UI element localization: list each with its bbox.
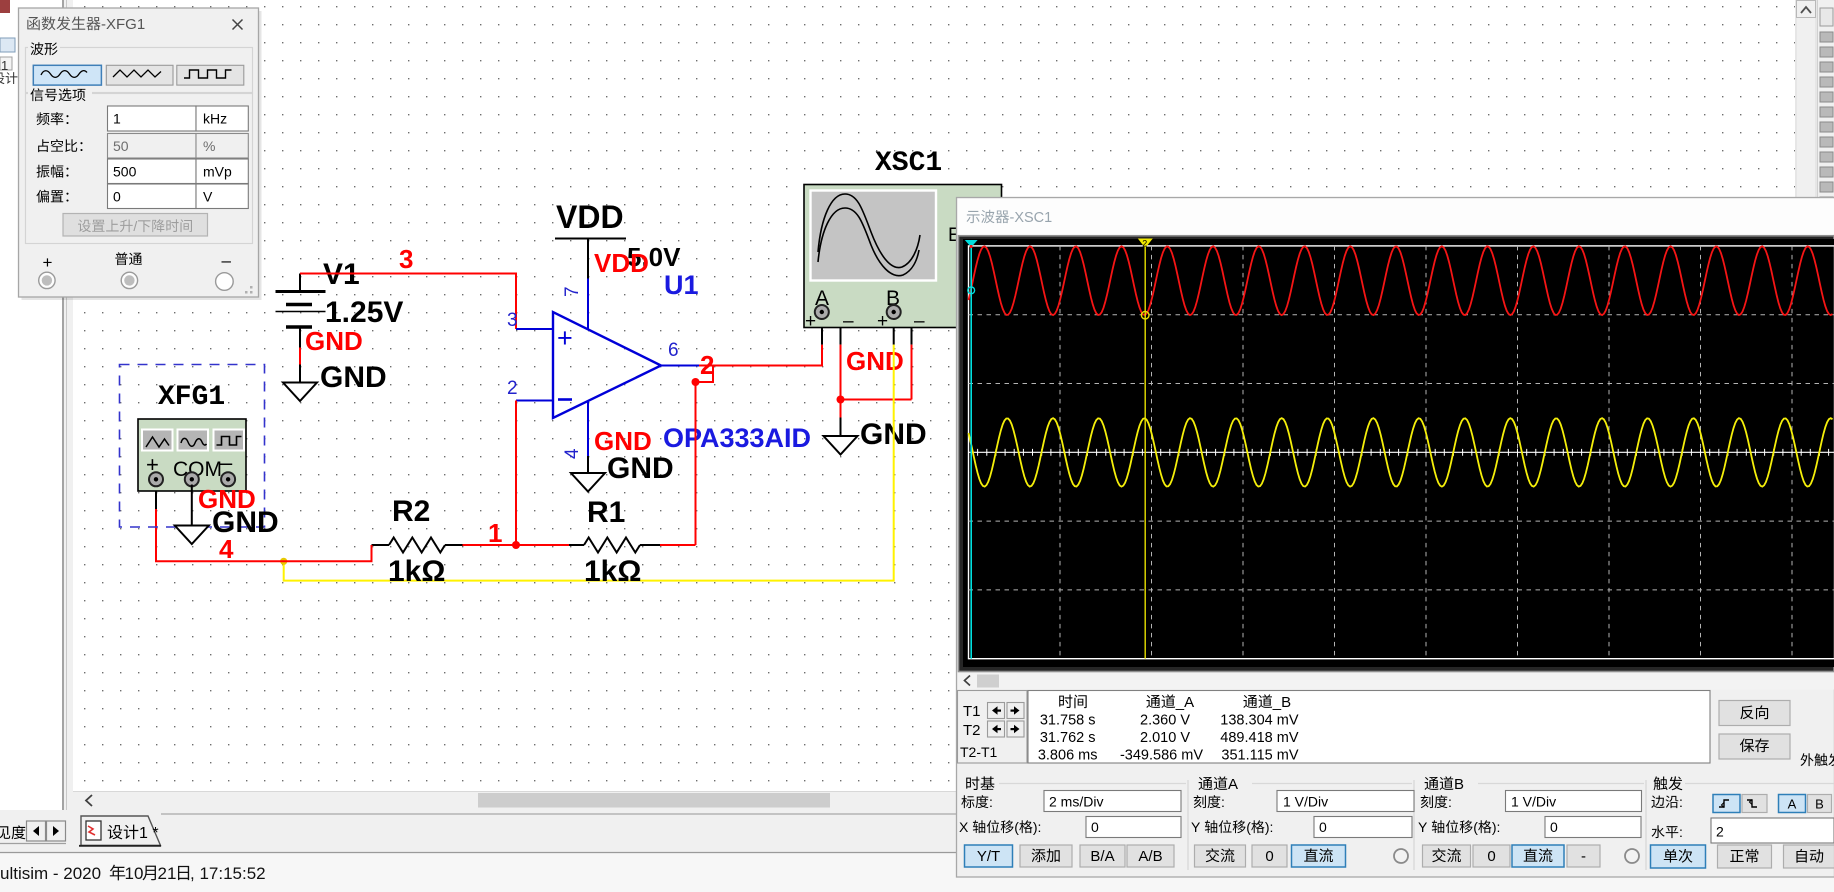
svg-text:1.25V: 1.25V xyxy=(325,296,403,329)
svg-text:-XSC1: -XSC1 xyxy=(1010,210,1053,226)
svg-text:VDD: VDD xyxy=(556,199,624,235)
resistor R1 xyxy=(569,544,584,546)
wire node1 up to op-amp pin2 xyxy=(515,401,517,546)
svg-text:4: 4 xyxy=(562,448,583,459)
svg-text:3: 3 xyxy=(507,310,518,331)
output polarity row xyxy=(115,252,142,265)
scope window title bar xyxy=(958,199,1834,235)
op-amp pin 4 (GND) lead xyxy=(587,401,589,456)
ground symbol below scope xyxy=(840,418,842,437)
svg-text::: : xyxy=(1448,794,1452,810)
svg-text::: : xyxy=(1679,824,1683,840)
oscilloscope window XSC1 xyxy=(957,198,1834,878)
wave button square xyxy=(177,65,244,85)
bottom horizontal scrollbar xyxy=(73,792,1795,810)
status bar xyxy=(0,852,1834,854)
svg-text:OPA333AID: OPA333AID xyxy=(663,423,811,453)
XSC1 icon sine curve 2 xyxy=(818,208,919,276)
svg-text:(: ( xyxy=(1473,819,1478,835)
svg-text:10: 10 xyxy=(125,864,144,883)
wire V1 to ground (red segment) xyxy=(299,348,301,365)
svg-text:+: + xyxy=(877,311,888,332)
field offset xyxy=(36,190,68,203)
svg-text:351.115 mV: 351.115 mV xyxy=(1221,748,1298,764)
oscilloscope XSC1 icon xyxy=(804,185,1002,328)
T1 arrows xyxy=(988,703,1005,719)
svg-text:U1: U1 xyxy=(664,270,699,300)
svg-text:489.418 mV: 489.418 mV xyxy=(1220,730,1299,746)
XFG1 terminal + xyxy=(149,472,163,486)
wire XFG COM to ground xyxy=(191,485,193,526)
scope plot frame xyxy=(959,236,1834,672)
scope time axis with ticks xyxy=(969,451,1834,453)
button set rise/fall time (disabled) xyxy=(63,214,208,237)
XSC1 icon screen xyxy=(811,191,937,281)
svg-text:T2-T1: T2-T1 xyxy=(960,744,998,760)
svg-text:31.758 s: 31.758 s xyxy=(1040,713,1096,729)
T2 arrows xyxy=(988,721,1005,737)
junction dot (scope grounds) xyxy=(837,396,845,404)
wire R2 right to node 1 xyxy=(463,544,517,546)
svg-text:_A: _A xyxy=(1175,694,1194,711)
svg-text:0: 0 xyxy=(113,189,121,205)
XFG1 waveform button triangle xyxy=(142,430,173,451)
wire node 1 to R1 xyxy=(516,544,569,546)
radio - xyxy=(216,273,234,291)
svg-text:GND: GND xyxy=(846,346,904,376)
svg-text::: : xyxy=(1221,794,1225,810)
tab bar xyxy=(0,810,1834,853)
right vertical scrollbar xyxy=(1796,0,1816,791)
junction dot yellow tap xyxy=(280,558,287,565)
svg-text:XSC1: XSC1 xyxy=(875,148,942,179)
dialog close button xyxy=(233,20,243,30)
op-amp pin 6 output lead xyxy=(661,365,699,367)
svg-text:7: 7 xyxy=(562,286,583,297)
radio common xyxy=(121,272,137,288)
node 1 junction dot xyxy=(512,541,520,549)
XFG1 waveform button square xyxy=(214,430,245,451)
svg-text:-349.586 mV: -349.586 mV xyxy=(1120,748,1203,764)
resistor R2 xyxy=(372,544,390,546)
svg-text:%: % xyxy=(203,138,215,154)
svg-text:2.360 V: 2.360 V xyxy=(1140,713,1190,729)
svg-text:):: ): xyxy=(1492,819,1501,835)
svg-text:R1: R1 xyxy=(587,496,625,529)
svg-text:T1: T1 xyxy=(963,703,981,720)
scope scrollbar xyxy=(958,673,1834,690)
svg-text:138.304 mV: 138.304 mV xyxy=(1220,713,1299,729)
svg-text:Y: Y xyxy=(1418,819,1428,835)
svg-text:1 V/Div: 1 V/Div xyxy=(1511,794,1556,810)
svg-text:2: 2 xyxy=(700,350,714,380)
svg-text:B/A: B/A xyxy=(1090,848,1114,865)
scope grid xyxy=(969,246,1834,659)
svg-text:VDD: VDD xyxy=(594,248,649,278)
svg-text:GND: GND xyxy=(320,361,387,394)
svg-text:B: B xyxy=(1815,797,1824,812)
svg-text:+: + xyxy=(557,323,573,353)
function generator dialog XFG1 xyxy=(22,11,262,300)
svg-text::: : xyxy=(1679,794,1683,810)
svg-text:+: + xyxy=(43,253,53,272)
XFG1 terminal - xyxy=(221,472,235,486)
wire net 4 : XFG1 + output to R2 xyxy=(155,485,157,510)
svg-text:(: ( xyxy=(1014,819,1019,835)
svg-text:31.762 s: 31.762 s xyxy=(1040,730,1096,746)
channel B waveform (yellow) xyxy=(969,418,1833,486)
wire A- to ground (black stub + red) xyxy=(840,328,842,345)
ext trigger label xyxy=(1801,753,1834,766)
svg-text:50: 50 xyxy=(113,138,129,154)
svg-text:1: 1 xyxy=(113,111,121,127)
svg-text:–: – xyxy=(843,311,854,332)
svg-text:0: 0 xyxy=(1319,819,1327,835)
svg-text:0: 0 xyxy=(1550,819,1558,835)
wave button sine (selected) xyxy=(33,65,101,85)
svg-text:1 V/Div: 1 V/Div xyxy=(1283,794,1328,810)
op-amp U1 pin 2 lead xyxy=(516,400,553,402)
svg-text:ultisim - 2020: ultisim - 2020 xyxy=(0,864,101,883)
svg-text:GND: GND xyxy=(305,326,363,356)
svg-text:2: 2 xyxy=(1142,239,1147,249)
battery V1 xyxy=(299,274,301,293)
dialog resize grip xyxy=(245,286,253,294)
left panel bottom: visibility tab + arrows xyxy=(0,825,25,839)
wire B- to ground xyxy=(911,328,913,345)
svg-text:A: A xyxy=(1228,776,1238,793)
XSC1 terminal B xyxy=(887,305,901,319)
reverse button xyxy=(1719,701,1790,726)
svg-text:/: / xyxy=(133,218,137,234)
wire scope B- hook xyxy=(901,312,911,328)
svg-text:0: 0 xyxy=(1265,848,1273,865)
svg-text:A: A xyxy=(1788,797,1797,812)
svg-text:3: 3 xyxy=(399,244,413,274)
svg-text:, 17:15:52: , 17:15:52 xyxy=(190,864,266,883)
XSC1 icon sine curve 1 xyxy=(818,194,920,268)
svg-text:T2: T2 xyxy=(963,722,981,739)
op-amp U1 pin 3 lead xyxy=(516,328,553,330)
trigger group xyxy=(1653,776,1682,790)
timebase group xyxy=(966,776,994,790)
wire net 2 : output to scope channel A xyxy=(699,345,822,366)
field frequency xyxy=(37,112,69,125)
left panel toolbar fragments xyxy=(0,0,10,13)
svg-text:kHz: kHz xyxy=(203,111,227,127)
save button xyxy=(1719,734,1790,759)
svg-text:_B: _B xyxy=(1272,694,1291,711)
net 2 jog to feedback xyxy=(696,366,714,383)
svg-text:(: ( xyxy=(1246,819,1251,835)
svg-text:1: 1 xyxy=(488,518,502,548)
svg-text:1kΩ: 1kΩ xyxy=(584,555,641,588)
svg-text:R2: R2 xyxy=(392,495,430,528)
svg-text:A/B: A/B xyxy=(1138,848,1162,865)
svg-text:–: – xyxy=(914,311,925,332)
ground symbol below op-amp xyxy=(587,456,589,473)
svg-text:–: – xyxy=(222,251,232,270)
XFG1 waveform button sine xyxy=(178,430,209,451)
field duty cycle (disabled) xyxy=(38,139,82,152)
svg-text:-XFG1: -XFG1 xyxy=(101,16,145,33)
groupbox waveform xyxy=(26,48,253,93)
svg-text:):: ): xyxy=(1265,819,1274,835)
ground symbol below XFG1 xyxy=(175,526,209,545)
scope T1/T2 panel xyxy=(958,691,1028,764)
svg-text:B: B xyxy=(1454,776,1464,793)
svg-text:2 ms/Div: 2 ms/Div xyxy=(1049,794,1103,810)
svg-text:500: 500 xyxy=(113,164,137,180)
group separators xyxy=(1187,780,1189,870)
wave button triangle xyxy=(106,65,173,85)
svg-text:GND: GND xyxy=(212,506,279,539)
radio + xyxy=(39,272,55,288)
svg-text:V: V xyxy=(203,189,213,205)
XSC1 terminal A xyxy=(815,305,829,319)
svg-text:2: 2 xyxy=(507,378,518,399)
junction dot net 2 xyxy=(692,378,700,386)
svg-text:GND: GND xyxy=(607,452,674,485)
left design-toolbox panel xyxy=(0,0,62,817)
channel B group xyxy=(1425,776,1454,790)
svg-text:Y: Y xyxy=(1191,819,1201,835)
svg-text:0: 0 xyxy=(1487,848,1495,865)
VDD power rail symbol xyxy=(587,239,589,279)
field amplitude xyxy=(37,165,69,178)
XFG1 terminal COM xyxy=(185,472,199,486)
svg-text:Y/T: Y/T xyxy=(977,848,1000,865)
wire net 3 : V1 top to op-amp + input xyxy=(300,274,516,330)
function generator XFG1 icon xyxy=(138,419,246,491)
channel A group xyxy=(1199,776,1228,790)
design tab 设计1 * xyxy=(81,816,161,846)
wire scope B+ yellow to XFG output xyxy=(893,319,895,345)
groupbox signal options xyxy=(26,94,253,244)
wire R1 right to feedback xyxy=(660,544,696,546)
wire scope A- hook xyxy=(829,312,840,328)
right instruments toolbar xyxy=(1817,0,1834,892)
wire scope A+ stub (black) xyxy=(821,319,823,345)
XFG1 selection box (dashed blue) xyxy=(120,365,265,528)
svg-text:+: + xyxy=(805,311,816,332)
scope readout table xyxy=(1028,691,1710,764)
svg-text:1 *: 1 * xyxy=(139,825,159,842)
svg-text:–: – xyxy=(220,450,233,475)
svg-text:X: X xyxy=(959,819,969,835)
feedback wire net 2 down to node 1 xyxy=(695,382,697,545)
svg-text:0: 0 xyxy=(1091,819,1099,835)
svg-text:):: ): xyxy=(1033,819,1042,835)
svg-text:-: - xyxy=(1581,848,1586,865)
svg-text:2.010 V: 2.010 V xyxy=(1140,730,1190,746)
dialog title xyxy=(27,16,100,30)
svg-text:mVp: mVp xyxy=(203,164,232,180)
svg-text:1kΩ: 1kΩ xyxy=(388,555,445,588)
svg-text:2: 2 xyxy=(1716,824,1724,840)
scope screen border xyxy=(969,246,1834,659)
op-amp pin 7 (VDD) lead xyxy=(587,279,589,331)
cursor T1 (cyan) xyxy=(970,246,972,659)
ground symbol below V1 xyxy=(283,383,317,402)
svg-text:21: 21 xyxy=(158,864,177,883)
svg-text:6: 6 xyxy=(668,340,679,361)
svg-text:3.806 ms: 3.806 ms xyxy=(1038,748,1098,764)
svg-text:1: 1 xyxy=(1,58,8,73)
channel A waveform (red) xyxy=(969,246,1833,315)
cursor T2 (yellow) xyxy=(1144,246,1146,659)
op-amp U1 triangle xyxy=(553,312,661,418)
svg-text:XFG1: XFG1 xyxy=(158,382,225,413)
svg-text::: : xyxy=(989,794,993,810)
